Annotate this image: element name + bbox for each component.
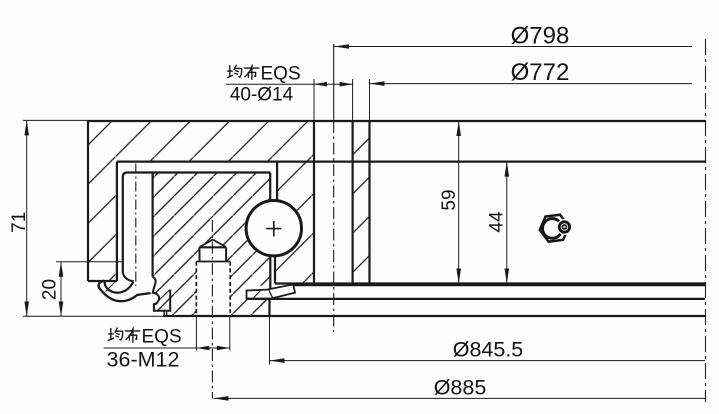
ext line Ø845.5 — [269, 316, 271, 365]
dim line Ø798 — [334, 46, 692, 48]
outer ring top face + outer face (contour with rounded corner) — [123, 173, 270, 273]
M12 pilot bore walls — [200, 247, 227, 261]
cutout: ball — [245, 199, 303, 257]
dim line 59 — [458, 121, 460, 284]
ext lines 40-Ø14 hole — [314, 79, 353, 121]
arrow Ø885 — [214, 396, 229, 401]
dim line Ø845.5 — [270, 360, 706, 362]
bearing axis centerline at right — [705, 39, 707, 402]
M12 thread walls (hidden lines) — [196, 262, 230, 316]
hatch: inner ring web left of bolt hole — [276, 162, 314, 284]
centerline of 36-M12 holes — [211, 220, 213, 398]
svg-text:59: 59 — [439, 189, 460, 210]
dim line Ø885 — [214, 397, 706, 399]
seal flag inner edge — [269, 289, 273, 298]
seal flag — [247, 285, 296, 299]
seam line under top flange — [117, 161, 705, 163]
hatch: left skirt — [88, 162, 117, 281]
skirt bottom — [88, 280, 117, 282]
leader/dim line 40-Ø14 — [226, 83, 353, 85]
svg-text:71: 71 — [9, 212, 30, 233]
dim line Ø772 — [370, 83, 693, 85]
M12 drill cone — [200, 240, 227, 247]
grease fitting dome — [541, 218, 563, 240]
cutout: ball raceway gap above/below ball — [270, 173, 277, 229]
svg-text:36-M12: 36-M12 — [107, 348, 180, 372]
arrows 40-Ø14 — [314, 82, 327, 87]
label 均布EQS (top) — [227, 65, 241, 77]
dim line 44 — [506, 162, 508, 284]
dim line 20 — [60, 262, 62, 317]
svg-text:Ø845.5: Ø845.5 — [453, 338, 524, 362]
arrows 44 — [505, 162, 510, 177]
top face — [88, 120, 705, 122]
thin part of bottom face extension — [23, 315, 163, 317]
label 均布EQS (bottom) — [108, 328, 122, 340]
hatch: top flange band of inner ring assembly — [88, 121, 314, 162]
dim+ext lines 36-M12 — [104, 347, 230, 349]
grease slot right wall — [152, 173, 154, 277]
arrows 71 — [24, 120, 29, 135]
ball — [246, 201, 301, 256]
centerline of 40-Ø14 holes (solid ext above part) — [333, 44, 335, 121]
inner ring bore edge — [368, 121, 370, 284]
grease fitting tip ring — [559, 221, 571, 233]
cutout: M12 tapped hole with drill cone — [196, 240, 230, 316]
foot stub to base line — [164, 311, 166, 316]
svg-text:Ø885: Ø885 — [434, 376, 487, 400]
dim line 71 — [26, 120, 28, 316]
outer ring lower-left contour: slot wall into bump and steps — [153, 277, 171, 311]
svg-text:Ø772: Ø772 — [511, 59, 570, 86]
support plate 2 left edge — [268, 299, 270, 316]
skirt inner edge — [116, 162, 118, 281]
M12 counterbore step — [196, 261, 230, 263]
inner ring bottom face — [275, 282, 705, 284]
hatch: outer ring body — [153, 173, 271, 316]
ext line Ø772 bore — [369, 79, 371, 121]
arrows 20 — [59, 262, 64, 277]
seal outer arc — [99, 281, 151, 301]
svg-text:20: 20 — [40, 279, 61, 300]
gap below ball — [270, 254, 275, 289]
ext line 20 top — [56, 261, 122, 263]
svg-text:44: 44 — [487, 211, 508, 233]
Ø14 bolt hole walls — [314, 121, 353, 284]
arrows 59 — [456, 121, 461, 136]
hatch: inner ring web right of bolt hole — [353, 121, 370, 284]
svg-text:EQS: EQS — [142, 327, 182, 348]
grease fitting tip hole — [562, 225, 566, 229]
seal flag hatch tick — [253, 291, 261, 299]
left outer edge — [87, 120, 89, 281]
svg-text:Ø798: Ø798 — [511, 23, 570, 50]
arrow Ø845.5 — [270, 358, 285, 363]
cutout: seal cavity bottom-left of outer ring — [153, 277, 164, 316]
ball center cross — [266, 221, 281, 236]
svg-text:40-Ø14: 40-Ø14 — [230, 85, 294, 106]
arrow Ø798 — [334, 44, 349, 49]
seal inner arc — [105, 281, 134, 292]
bottom mounting face — [163, 315, 705, 317]
seal cavity upper-left arc from slot — [123, 272, 134, 281]
svg-text:EQS: EQS — [261, 64, 301, 85]
cavity hatch tick — [106, 280, 118, 292]
support plate 1 top — [293, 284, 706, 286]
arrow Ø772 — [370, 81, 385, 86]
arrows 36-M12 — [196, 346, 209, 351]
centerline of grease slot — [135, 164, 137, 287]
cutout: seal groove bottom-right of outer ring — [245, 286, 271, 300]
hatch tick in foot — [155, 290, 170, 305]
gap above ball — [270, 162, 277, 203]
ext line 71 top — [23, 119, 88, 121]
grease fitting hex — [538, 214, 570, 243]
support plate 1 bottom / groove line — [247, 298, 706, 300]
